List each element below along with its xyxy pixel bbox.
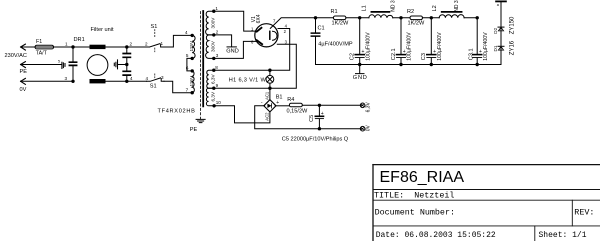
svg-text:C3: C3 — [421, 53, 427, 60]
svg-text:+: + — [433, 49, 436, 55]
title block frame — [373, 165, 600, 241]
node dot rail C2.1 — [399, 16, 402, 19]
svg-text:100µF/400V: 100µF/400V — [407, 32, 413, 61]
svg-text:D1: D1 — [493, 45, 498, 51]
wire lamp bottom to AC1 — [269, 83, 271, 100]
capacitor Y-cap upper — [126, 47, 128, 71]
transformer core shield dashed — [200, 12, 202, 119]
svg-text:R2: R2 — [407, 9, 414, 15]
inductor L1 core bar — [371, 11, 389, 13]
svg-text:S1: S1 — [150, 84, 157, 90]
svg-text:ND 3: ND 3 — [391, 0, 397, 12]
inductor L2 — [439, 15, 464, 18]
svg-text:C2: C2 — [350, 53, 356, 60]
svg-text:2: 2 — [130, 42, 133, 47]
svg-text:6X4: 6X4 — [256, 14, 262, 23]
wire GND rail bottom — [316, 64, 502, 66]
inductor L2 core bar — [442, 11, 462, 13]
tube V1 plate bars — [257, 28, 262, 44]
resistor R4 — [289, 103, 302, 107]
ground GND rail symbol — [356, 65, 365, 74]
svg-text:D2: D2 — [493, 27, 498, 33]
svg-text:300V: 300V — [211, 40, 216, 52]
svg-text:1K/2W: 1K/2W — [332, 20, 350, 26]
svg-text:+: + — [403, 49, 406, 55]
ground earth left — [62, 62, 65, 68]
svg-text:Document Number:: Document Number: — [375, 207, 455, 217]
node dot lamp bottom — [268, 87, 271, 90]
node dot — [125, 80, 128, 83]
tube V1 cathode — [269, 31, 271, 39]
wire to choke top — [73, 46, 90, 48]
svg-text:DR1: DR1 — [74, 37, 85, 43]
terminal 0V — [360, 126, 365, 131]
tube V1 heater arc — [273, 31, 278, 40]
wire B1 plus to R4 — [275, 105, 289, 107]
svg-text:100µF/400V: 100µF/400V — [437, 32, 443, 61]
svg-text:4µF/400V/MP: 4µF/400V/MP — [318, 41, 353, 47]
svg-text:3: 3 — [216, 53, 219, 58]
node dot C1 top — [314, 16, 317, 19]
wire cathode lead to B+ — [270, 18, 315, 29]
node dot lamp top — [268, 69, 271, 72]
switch S1 pole A — [146, 44, 163, 47]
transformer core bar — [202, 11, 204, 106]
wire S1 to trafo pin4 — [163, 35, 192, 47]
capacitor C2 — [359, 18, 361, 65]
inductor DR1 top winding — [90, 45, 106, 49]
capacitor C5 — [318, 105, 320, 128]
capacitor C2.1 — [400, 18, 402, 65]
wire 0V input — [21, 80, 73, 82]
wire B1 minus to 0V rail — [255, 106, 363, 129]
svg-text:R4: R4 — [287, 97, 294, 103]
svg-text:3: 3 — [161, 75, 164, 80]
svg-text:0V: 0V — [365, 125, 371, 132]
svg-text:PE: PE — [190, 127, 198, 133]
svg-text:2: 2 — [216, 30, 219, 35]
svg-text:5: 5 — [186, 53, 189, 58]
switch S1 link dashes — [154, 30, 156, 78]
node 0V arrow — [21, 78, 26, 84]
svg-text:3: 3 — [65, 76, 68, 81]
svg-text:7: 7 — [186, 88, 189, 93]
zener D2 — [498, 27, 503, 31]
transformer TR1 primary winding 2 — [192, 71, 194, 93]
transformer TR1 secondary winding 300V b — [206, 35, 214, 59]
node dot — [125, 63, 128, 66]
resistor R1 — [333, 16, 346, 20]
transformer TR1 secondary winding 6,3V a — [207, 70, 214, 88]
zener diode string wire — [500, 2, 502, 65]
node pin3 dot — [212, 57, 215, 60]
svg-text:9: 9 — [216, 83, 219, 88]
wire pin3 to tube plate — [214, 41, 257, 58]
svg-text:AC2: AC2 — [265, 112, 270, 121]
node dot gnd C2 — [358, 63, 361, 66]
svg-text:1: 1 — [65, 42, 68, 47]
node dot gnd C2.1 — [399, 63, 402, 66]
svg-text:L1: L1 — [362, 5, 368, 11]
svg-text:H1 6,3 V/1 W: H1 6,3 V/1 W — [229, 77, 267, 83]
wire choke to Y-caps bottom — [106, 80, 147, 82]
wire B+ rail — [316, 17, 478, 19]
svg-text:ZY16: ZY16 — [509, 40, 515, 55]
svg-text:8: 8 — [215, 65, 218, 70]
transformer TR1 secondary winding 6,3V b — [206, 88, 214, 106]
svg-text:GND: GND — [226, 49, 238, 55]
node 230V arrow — [21, 44, 26, 50]
wire PE input — [21, 64, 62, 66]
capacitor Y-cap lower — [126, 75, 128, 81]
node dot rail C3.1 — [476, 16, 479, 19]
svg-text:C2.1: C2.1 — [391, 48, 397, 60]
switch S1 pole B — [147, 78, 164, 81]
svg-text:300V: 300V — [211, 17, 216, 29]
svg-text:6,3V: 6,3V — [211, 73, 216, 84]
inductor L1 — [369, 15, 393, 18]
svg-text:L2: L2 — [432, 5, 438, 11]
svg-text:115V: 115V — [189, 75, 194, 86]
svg-text:C3.1: C3.1 — [468, 48, 474, 60]
supply bar top — [496, 0, 506, 2]
svg-text:0V: 0V — [20, 87, 27, 93]
svg-text:TA/T: TA/T — [36, 51, 48, 57]
zener D1 — [498, 47, 503, 51]
wire pin1 to tube plate — [214, 11, 256, 31]
node pin4 dot — [191, 34, 194, 37]
resistor R2 — [410, 16, 423, 20]
inductor DR1 bottom winding — [90, 79, 106, 83]
svg-text:F1: F1 — [36, 39, 42, 45]
wire jumper pin5-pin6 — [187, 58, 192, 71]
wire 230V/AC input — [21, 46, 73, 48]
svg-text:AC1: AC1 — [265, 91, 270, 100]
node dot C5 bottom — [318, 127, 321, 130]
svg-text:230V/AC: 230V/AC — [5, 53, 27, 59]
svg-text:100µF/400V: 100µF/400V — [483, 32, 489, 61]
svg-text:TITLE: Netzteil: TITLE: Netzteil — [374, 190, 454, 200]
wire pin10 to bridge AC2 — [214, 106, 270, 123]
svg-text:5: 5 — [58, 60, 60, 64]
svg-text:115V: 115V — [189, 40, 194, 51]
svg-text:Filter unit: Filter unit — [91, 27, 114, 33]
node dot — [125, 45, 128, 48]
wire pin9 to heater — [214, 44, 296, 88]
wire S1 to trafo pin7 — [164, 81, 192, 92]
capacitor C1 — [315, 18, 317, 65]
svg-text:Sheet: 1/1: Sheet: 1/1 — [539, 231, 587, 240]
ground earth PE below transformer — [196, 119, 205, 122]
ground GND tube — [227, 46, 236, 48]
node pin6 dot — [191, 69, 194, 72]
node pin9 dot — [212, 87, 215, 90]
node dot rail C2 — [358, 16, 361, 19]
node pin1 dot — [212, 10, 215, 13]
svg-text:REV:: REV: — [574, 207, 594, 217]
node pin2 dot — [212, 33, 215, 36]
svg-text:TF4RX02HB: TF4RX02HB — [158, 108, 196, 114]
bridge rectifier B1 — [264, 100, 276, 112]
node dot C5 top — [318, 104, 321, 107]
svg-text:+: + — [321, 111, 324, 117]
DR1 core circle — [87, 55, 108, 76]
tube V1 circle — [255, 24, 278, 47]
capacitor X-cap — [72, 47, 74, 81]
node PE arrow — [21, 62, 26, 68]
svg-text:4: 4 — [130, 76, 133, 81]
bridge B1 diode arrow — [267, 104, 271, 108]
svg-text:ND 3: ND 3 — [454, 0, 460, 12]
transformer TR1 secondary winding 300V a — [206, 11, 214, 35]
svg-text:100µF/400V: 100µF/400V — [365, 32, 371, 61]
node pin10 dot — [212, 104, 215, 107]
wire lamp top — [269, 70, 271, 75]
transformer TR1 primary winding 1 — [192, 35, 195, 58]
lamp H1 — [266, 75, 274, 83]
svg-text:10: 10 — [216, 100, 222, 105]
svg-text:GND: GND — [353, 75, 368, 81]
svg-text:S1: S1 — [151, 24, 158, 30]
node pin8 dot — [212, 69, 215, 72]
terminal 6,3V — [360, 103, 365, 108]
svg-text:6: 6 — [186, 66, 189, 71]
wire pin8 to heater — [214, 29, 290, 71]
capacitor C3 — [430, 18, 432, 65]
wire pin2 to GND — [214, 35, 232, 47]
svg-text:C5 22000µF/10V/Philips Q: C5 22000µF/10V/Philips Q — [282, 136, 349, 142]
svg-text:1: 1 — [215, 6, 218, 11]
svg-text:C5: C5 — [309, 115, 315, 122]
capacitor C3.1 — [476, 18, 478, 65]
svg-text:0,15/2W: 0,15/2W — [287, 109, 309, 115]
svg-text:+: + — [276, 100, 279, 106]
svg-text:4: 4 — [185, 30, 188, 35]
node pin7 dot — [191, 91, 194, 94]
node pin5 dot — [191, 57, 194, 60]
svg-text:+: + — [479, 49, 482, 55]
node dot gnd C3 — [430, 63, 433, 66]
wire choke to Y-caps top — [106, 46, 147, 48]
svg-text:EF86_RIAA: EF86_RIAA — [380, 169, 465, 186]
node dot — [71, 45, 74, 48]
svg-text:+: + — [362, 49, 365, 55]
fuse F1 — [35, 45, 54, 49]
svg-text:6,3V: 6,3V — [365, 101, 371, 112]
svg-text:Date: 06.08.2003 15:05:22: Date: 06.08.2003 15:05:22 — [376, 231, 496, 240]
node dot — [71, 80, 74, 83]
svg-text:2: 2 — [145, 42, 148, 47]
node dot rail C3 — [430, 16, 433, 19]
ground earth mid — [114, 60, 127, 69]
svg-text:PE: PE — [20, 69, 28, 75]
wire R4 to 6.3V terminal — [302, 104, 362, 106]
svg-text:1K/2W: 1K/2W — [408, 20, 426, 26]
svg-text:C1: C1 — [318, 25, 325, 31]
svg-text:6,3V: 6,3V — [211, 91, 216, 102]
node dot gnd C3.1 — [476, 63, 479, 66]
svg-text:1: 1 — [161, 41, 164, 46]
svg-text:4: 4 — [146, 76, 149, 81]
svg-text:R1: R1 — [331, 9, 338, 15]
svg-text:ZY150: ZY150 — [509, 16, 515, 34]
